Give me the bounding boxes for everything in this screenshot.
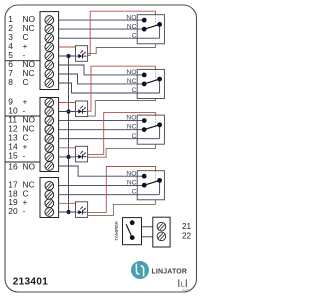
wire minus relay 3 [59,156,76,158]
wire tamper to terminal 22 [142,236,153,238]
wire NO relay 3 [59,120,145,122]
svg-text:22: 22 [182,232,192,241]
junction node minus rail y=156.9 [66,155,70,159]
LED indicator D2 [76,101,88,117]
svg-text:NC: NC [127,78,137,85]
group separator lines [5,61,40,162]
svg-text:C: C [132,32,137,39]
junction node minus rail y=212 [66,210,70,214]
logo mark circle [131,261,149,279]
wire NC relay 1 [59,28,145,30]
wire NC relay 4 [59,185,145,187]
svg-text:NO: NO [23,161,36,171]
svg-text:LINJATOR: LINJATOR [152,269,188,276]
wire NC relay 2 [59,74,145,84]
wire plus relay 1 [59,46,76,48]
terminal block terminals 1-8 [40,12,59,90]
wire C relay 4 [59,194,160,196]
wire plus relay 3 [59,147,76,149]
wire NO relay 1 [59,19,145,21]
svg-text:NC: NC [127,23,137,30]
wire minus relay 1 [59,55,76,57]
svg-text:213401: 213401 [13,276,49,287]
junction node minus rail y=111.5 [66,109,70,113]
relay contact K3 [126,115,164,145]
wire NO relay 2 [59,65,145,75]
wire C relay 2 [59,83,160,93]
svg-text:30x85: 30x85 [182,288,191,292]
wire C relay 1 [59,37,160,39]
svg-text:TAMPER: TAMPER [114,221,120,241]
svg-text:NO: NO [126,115,136,122]
svg-text:15: 15 [8,151,18,161]
svg-text:21: 21 [182,222,192,231]
terminal block 21-22 [153,217,170,247]
svg-text:-: - [23,206,26,216]
relay contact K4 [126,170,164,200]
wire NO relay 4 [59,166,145,176]
svg-text:16: 16 [8,161,18,171]
border frame [5,5,197,292]
terminal block terminals 9-16 [40,98,59,172]
LED indicator D4 [76,202,88,218]
wire coil plus (red) relay 2 [88,66,156,111]
wire NC relay 3 [59,129,145,131]
svg-text:NO: NO [126,170,136,177]
wire coil return (gray) relay 2 [88,99,156,117]
svg-text:NC: NC [127,124,137,131]
wire coil return (gray) relay 3 [88,144,156,157]
relay contact K1 [126,14,164,44]
wire minus relay 4 [59,211,76,213]
wire C relay 3 [59,138,160,140]
wire tamper to terminal 21 [142,226,153,228]
terminal block terminals 17-20 [40,178,59,218]
logo submark L [179,279,187,288]
wire coil plus (red) relay 3 [88,112,156,154]
LED indicator D3 [76,146,88,162]
wire coil return (gray) relay 4 [88,200,156,216]
wire minus relay 2 [59,111,76,113]
junction node minus rail y=56 [66,54,70,58]
svg-text:8: 8 [8,77,13,87]
wire coil plus (red) relay 4 [88,167,156,213]
svg-text:NC: NC [127,179,137,186]
svg-text:NO: NO [126,69,136,76]
negative common rail wire [68,56,70,212]
svg-text:20: 20 [8,206,18,216]
wire plus relay 4 [59,202,76,204]
wire plus relay 2 [59,102,76,104]
svg-text:-: - [23,151,26,161]
svg-text:C: C [132,133,137,140]
relay contact K2 [126,69,164,99]
svg-text:C: C [23,77,29,87]
svg-text:C: C [132,188,137,195]
LED indicator D1 [76,46,88,62]
tamper switch S1 [123,218,142,245]
svg-text:NO: NO [126,14,136,21]
svg-text:C: C [132,87,137,94]
terminal number and function labels 1-20 [8,14,35,216]
wire coil return (gray) relay 1 [88,44,156,54]
wire coil plus (red) relay 1 [88,11,156,55]
